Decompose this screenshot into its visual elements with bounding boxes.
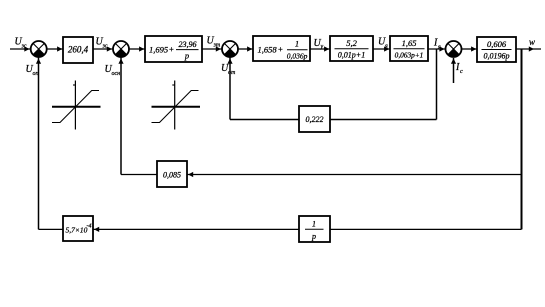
svg-text:5,2: 5,2: [346, 38, 357, 48]
svg-text:5,7×10: 5,7×10: [66, 226, 88, 235]
svg-text:осн: осн: [112, 71, 121, 77]
svg-text:0,0196p: 0,0196p: [484, 52, 510, 61]
svg-text:0,063p+1: 0,063p+1: [395, 51, 424, 60]
svg-text:от: от: [228, 70, 236, 76]
svg-text:1: 1: [312, 220, 316, 229]
svg-text:p: p: [311, 232, 316, 241]
svg-text:0,222: 0,222: [306, 115, 324, 124]
svg-text:1,695: 1,695: [149, 45, 168, 55]
svg-text:оп: оп: [33, 71, 39, 77]
svg-text:-4: -4: [87, 223, 92, 230]
svg-text:0,036p: 0,036p: [287, 52, 308, 61]
svg-text:23,96: 23,96: [179, 40, 197, 49]
svg-text:зт: зт: [213, 43, 221, 49]
svg-text:зс: зс: [102, 44, 108, 50]
svg-text:p: p: [184, 51, 189, 61]
svg-text:+: +: [169, 44, 175, 54]
svg-text:1,658: 1,658: [258, 45, 278, 55]
svg-text:w: w: [529, 37, 535, 47]
svg-text:я: я: [384, 44, 388, 50]
svg-text:0,606: 0,606: [487, 39, 507, 49]
svg-text:зс: зс: [21, 44, 27, 50]
svg-text:1: 1: [295, 39, 299, 49]
svg-text:у: у: [320, 44, 324, 50]
svg-text:0,01p+1: 0,01p+1: [338, 51, 365, 60]
svg-text:я: я: [437, 45, 441, 51]
svg-text:260,4: 260,4: [68, 45, 89, 55]
svg-text:+: +: [278, 44, 284, 54]
svg-text:1,65: 1,65: [402, 38, 417, 48]
svg-text:с: с: [460, 69, 463, 75]
svg-text:0,085: 0,085: [163, 171, 181, 180]
